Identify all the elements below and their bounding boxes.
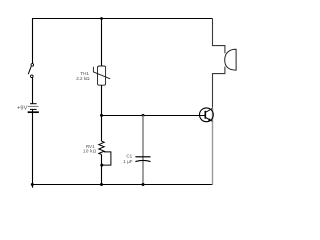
potentiometer RV1	[99, 141, 111, 165]
thermistor TH1	[93, 66, 110, 85]
label RV1 10 k	[83, 144, 97, 153]
node base junction	[100, 114, 103, 117]
label C1 1 uF	[123, 153, 132, 164]
label TH1 2.2 k	[76, 71, 90, 81]
junction bottom-left	[31, 183, 34, 186]
speaker LS1	[225, 49, 236, 70]
battery +9V	[28, 104, 39, 113]
node bottom junction left	[100, 183, 103, 186]
node capacitor junction	[142, 114, 145, 117]
svg-text:10 kΩ: 10 kΩ	[83, 148, 97, 153]
wire speaker top feed	[213, 19, 225, 54]
svg-text:1 µF: 1 µF	[123, 159, 132, 164]
wire left branch upper (rail to switch)	[32, 18, 34, 64]
wire capacitor branch	[142, 115, 144, 184]
wire switch to battery	[32, 78, 34, 104]
node top junction	[100, 17, 103, 20]
capacitor C1	[135, 157, 150, 162]
wire speaker bottom feed	[213, 67, 225, 108]
svg-text:C1: C1	[126, 153, 132, 158]
wire top rail	[32, 18, 213, 20]
wire bottom rail	[32, 184, 213, 186]
svg-text:2.2 kΩ: 2.2 kΩ	[76, 76, 90, 81]
wire potentiometer to bottom rail	[101, 155, 103, 185]
node bottom junction right	[142, 183, 145, 186]
switch SW1	[28, 64, 33, 78]
wire rail to thermistor	[101, 19, 103, 67]
wire battery to bottom rail	[32, 112, 34, 188]
node wiper junction	[100, 164, 103, 167]
transistor Q1	[200, 108, 214, 122]
wire base horizontal	[102, 115, 206, 117]
wire collector-emitter vertical	[212, 108, 214, 185]
svg-text:+9V: +9V	[17, 106, 28, 112]
wire thermistor to base node	[101, 85, 103, 141]
